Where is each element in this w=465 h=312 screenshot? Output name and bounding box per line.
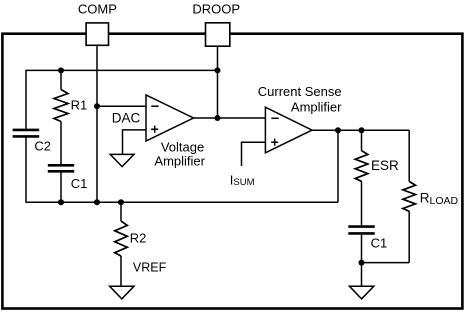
svg-text:R1: R1 <box>71 97 88 112</box>
svg-text:C1: C1 <box>371 236 388 251</box>
svg-text:VREF: VREF <box>133 261 167 275</box>
svg-text:DAC: DAC <box>112 110 141 125</box>
svg-text:Amplifier: Amplifier <box>154 154 205 169</box>
svg-text:C1: C1 <box>71 176 88 191</box>
svg-text:COMP: COMP <box>78 2 117 17</box>
svg-text:RLOAD: RLOAD <box>420 191 459 207</box>
svg-text:DROOP: DROOP <box>192 2 240 17</box>
svg-text:Amplifier: Amplifier <box>291 100 342 115</box>
svg-text:ISUM: ISUM <box>230 172 255 188</box>
svg-text:R2: R2 <box>130 230 147 245</box>
svg-text:Current Sense: Current Sense <box>258 84 342 99</box>
svg-text:ESR: ESR <box>371 158 399 173</box>
svg-text:C2: C2 <box>34 139 51 154</box>
svg-text:Voltage: Voltage <box>161 140 204 155</box>
